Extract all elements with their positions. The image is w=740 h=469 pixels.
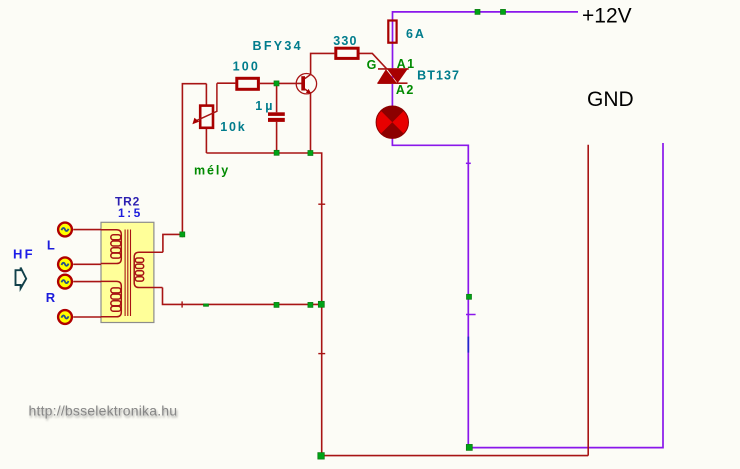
svg-text:L: L: [47, 237, 55, 252]
svg-text:1µ: 1µ: [255, 99, 275, 113]
svg-text:330: 330: [333, 34, 357, 48]
svg-text:+12V: +12V: [582, 5, 632, 28]
svg-text:http://bsselektronika.hu: http://bsselektronika.hu: [29, 402, 178, 418]
svg-text:A1: A1: [397, 57, 416, 71]
svg-text:10k: 10k: [220, 120, 246, 134]
svg-text:100: 100: [233, 60, 260, 74]
svg-text:R: R: [46, 290, 56, 305]
svg-text:A2: A2: [396, 83, 415, 97]
svg-text:1:5: 1:5: [118, 206, 143, 220]
svg-text:6A: 6A: [406, 27, 426, 41]
svg-text:GND: GND: [587, 88, 634, 111]
svg-text:BT137: BT137: [417, 69, 460, 83]
svg-text:HF: HF: [13, 246, 35, 261]
svg-text:mély: mély: [194, 164, 230, 178]
svg-text:G: G: [367, 58, 377, 72]
svg-text:BFY34: BFY34: [253, 39, 303, 53]
